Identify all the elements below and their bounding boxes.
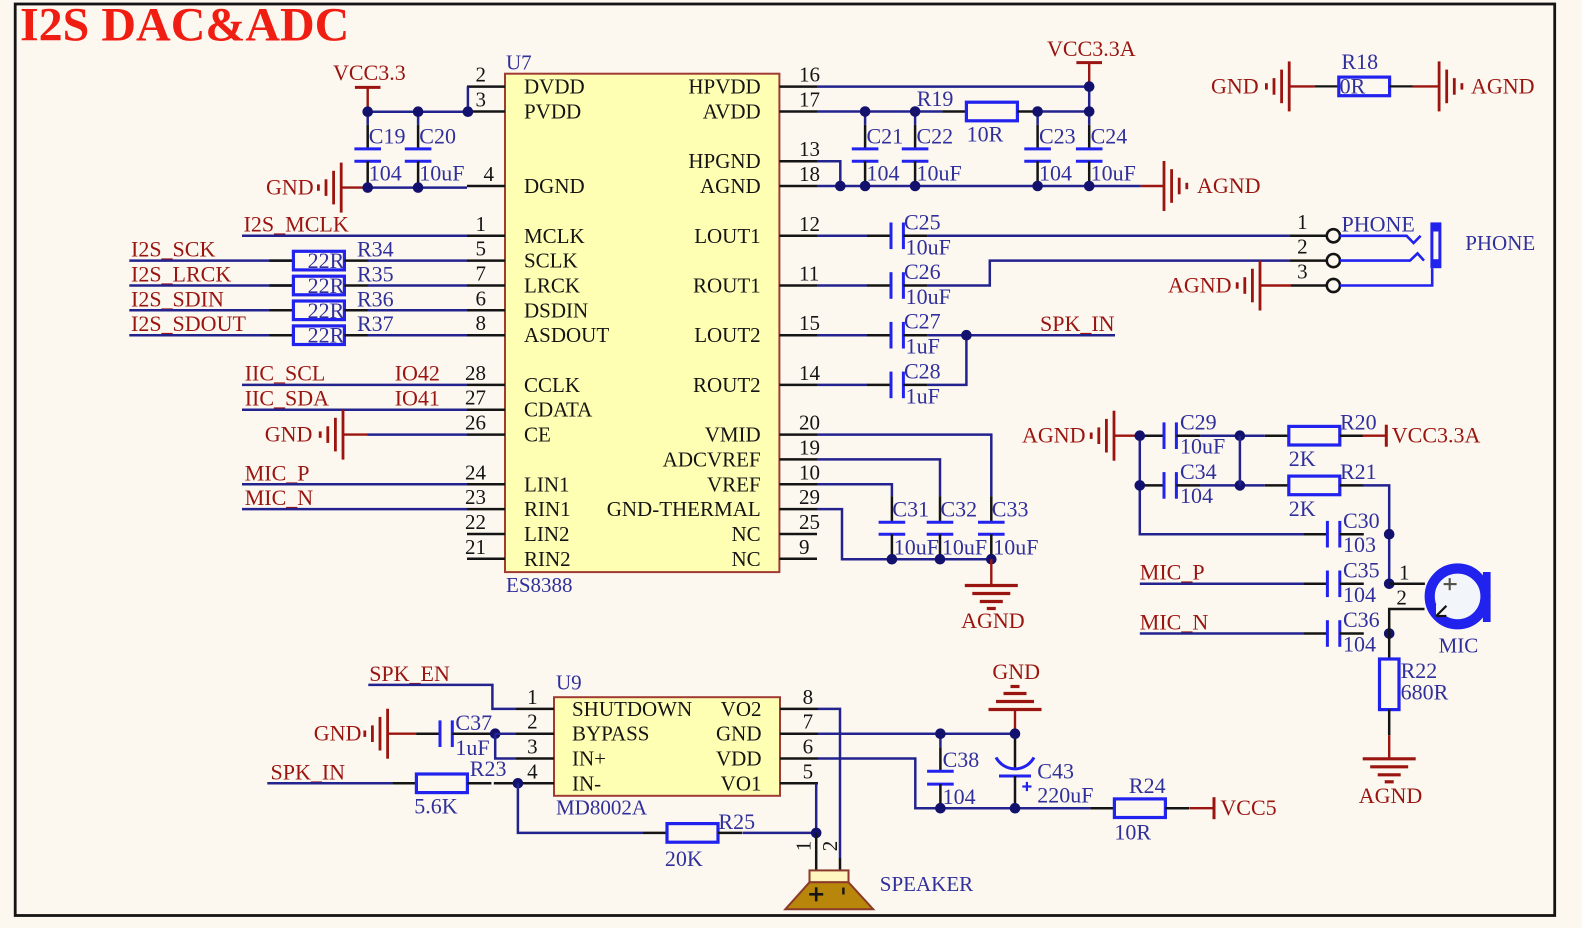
svg-text:VO2: VO2 — [721, 697, 762, 721]
svg-text:MIC: MIC — [1439, 633, 1479, 657]
ground AGND below R22 — [1363, 757, 1416, 760]
ground AGND at pin18 — [1163, 161, 1166, 211]
junction dots U9 rails — [935, 728, 946, 739]
svg-text:22R: 22R — [308, 298, 345, 323]
svg-text:23: 23 — [465, 485, 486, 509]
svg-text:IIC_SDA: IIC_SDA — [245, 386, 329, 411]
svg-text:16: 16 — [799, 63, 820, 87]
wire MIC_N to RIN1 — [242, 508, 467, 511]
junction SPK_IN node — [961, 330, 972, 341]
svg-text:VCC3.3A: VCC3.3A — [1392, 423, 1481, 448]
wire C27 to SPK_IN — [927, 334, 1115, 337]
svg-text:7: 7 — [476, 262, 487, 286]
svg-text:10uF: 10uF — [906, 284, 951, 309]
svg-text:9: 9 — [799, 535, 810, 559]
resistor R34 — [269, 259, 293, 262]
wire BYPASS — [495, 732, 516, 735]
mic notch — [1436, 605, 1447, 616]
svg-text:11: 11 — [799, 262, 819, 286]
svg-text:1: 1 — [527, 685, 538, 709]
svg-text:2: 2 — [527, 710, 538, 734]
wire PVDD rail — [366, 110, 468, 113]
resistor R22 — [1380, 659, 1400, 710]
wire I2S_LRCK left — [129, 284, 293, 287]
wire C28 up to SPK_IN node — [927, 335, 966, 385]
svg-text:GND: GND — [266, 175, 314, 200]
svg-text:C23: C23 — [1039, 124, 1076, 149]
junction dots C31 bus — [887, 554, 898, 565]
wire MIC_N to C36 — [1140, 632, 1304, 635]
C43 plus sign — [1022, 785, 1031, 787]
capacitor C19 — [366, 112, 369, 125]
svg-text:10uF: 10uF — [906, 235, 951, 260]
wire MIC_P to LIN1 — [242, 483, 467, 486]
svg-text:8: 8 — [476, 311, 487, 335]
svg-text:104: 104 — [867, 161, 900, 186]
resistor R18 — [1339, 77, 1390, 96]
svg-text:LIN2: LIN2 — [524, 522, 570, 546]
svg-text:SPK_IN: SPK_IN — [271, 759, 346, 784]
svg-text:2: 2 — [1297, 235, 1308, 259]
svg-text:C22: C22 — [917, 124, 954, 149]
power symbol VCC3.3A top — [1076, 61, 1102, 64]
svg-text:AGND: AGND — [1022, 423, 1086, 448]
svg-text:C25: C25 — [904, 210, 941, 235]
svg-text:10R: 10R — [967, 122, 1004, 147]
svg-text:1: 1 — [1297, 210, 1308, 234]
svg-text:0R: 0R — [1340, 73, 1366, 98]
svg-text:22: 22 — [465, 510, 486, 534]
wire C26 to phone pin2 — [927, 261, 1289, 286]
capacitor C20 — [417, 112, 420, 125]
svg-text:AGND: AGND — [1471, 73, 1535, 98]
capacitor C22 — [914, 112, 917, 125]
wire LOUT2 — [817, 334, 867, 337]
power symbol VCC3.3A right — [1363, 435, 1387, 437]
svg-text:2K: 2K — [1289, 446, 1316, 471]
svg-text:8: 8 — [803, 685, 814, 709]
wire ADCVREF to C32 — [817, 459, 940, 496]
svg-text:5: 5 — [476, 237, 487, 261]
svg-text:10uF: 10uF — [1180, 433, 1225, 458]
svg-text:R21: R21 — [1340, 459, 1377, 484]
svg-text:3: 3 — [476, 88, 487, 112]
capacitor C21 — [864, 112, 867, 125]
svg-text:R24: R24 — [1129, 773, 1166, 798]
svg-text:3: 3 — [527, 735, 538, 759]
junction C36 node — [1384, 628, 1395, 639]
svg-text:ROUT1: ROUT1 — [693, 274, 761, 298]
capacitor C32 — [939, 496, 942, 522]
svg-text:PVDD: PVDD — [524, 100, 581, 124]
phone jack body — [1430, 222, 1441, 268]
svg-text:104: 104 — [369, 161, 402, 186]
svg-text:GND: GND — [1211, 73, 1259, 98]
svg-text:I2S_SCK: I2S_SCK — [131, 237, 215, 262]
svg-text:NC: NC — [732, 547, 761, 571]
ground AGND below C33 — [990, 559, 992, 585]
svg-text:5: 5 — [803, 759, 814, 783]
U7 left pin stubs — [467, 85, 505, 88]
svg-text:C29: C29 — [1180, 409, 1217, 434]
wire I2S_SCK left — [129, 259, 293, 262]
wire IIC_SDA — [242, 408, 467, 411]
wire I2S_MCLK — [242, 235, 467, 238]
wire ROUT1 — [817, 284, 867, 287]
resistor R23 — [392, 782, 416, 785]
svg-text:IIC_SCL: IIC_SCL — [245, 361, 326, 386]
svg-text:SPK_IN: SPK_IN — [1040, 311, 1115, 336]
capacitor C30 — [1303, 533, 1327, 536]
svg-text:CDATA: CDATA — [524, 398, 593, 422]
capacitor C23 — [1036, 112, 1039, 125]
svg-text:20: 20 — [799, 411, 820, 435]
svg-text:C38: C38 — [943, 747, 980, 772]
wire CE — [368, 433, 468, 436]
svg-text:2: 2 — [1396, 586, 1407, 610]
wire C29 to R20 — [1200, 434, 1264, 437]
junction C35 node — [1384, 579, 1395, 590]
svg-text:2: 2 — [818, 841, 842, 852]
ground GND at CE pin — [342, 410, 345, 460]
svg-text:AGND: AGND — [961, 608, 1025, 633]
svg-text:AGND: AGND — [1168, 273, 1232, 298]
svg-text:U7: U7 — [506, 51, 532, 75]
capacitor C29 — [1140, 434, 1164, 437]
svg-text:4: 4 — [527, 759, 538, 783]
svg-text:SCLK: SCLK — [524, 249, 578, 273]
power symbol VCC5 — [1190, 807, 1214, 809]
ground GND top-left — [340, 163, 343, 213]
wire I2S_SDIN left — [129, 309, 293, 312]
phone jack sleeve wire — [1340, 268, 1432, 285]
svg-text:HPVDD: HPVDD — [688, 75, 760, 99]
microphone MIC symbol — [1425, 563, 1491, 629]
svg-text:15: 15 — [799, 311, 820, 335]
speaker SPEAKER symbol — [810, 870, 849, 882]
svg-text:R35: R35 — [357, 262, 394, 287]
svg-text:10uF: 10uF — [419, 161, 464, 186]
svg-text:C21: C21 — [867, 124, 904, 149]
wire to speaker pin1 — [815, 833, 818, 872]
svg-text:1: 1 — [1399, 561, 1410, 585]
svg-text:C20: C20 — [419, 124, 456, 149]
svg-text:22R: 22R — [308, 323, 345, 348]
wire GND to R18 — [1315, 85, 1339, 87]
svg-text:I2S_SDIN: I2S_SDIN — [131, 286, 224, 311]
junction BYPASS node — [490, 728, 501, 739]
svg-text:10uF: 10uF — [917, 161, 962, 186]
wire C36 down to R22 — [1388, 634, 1391, 660]
svg-text:AVDD: AVDD — [703, 100, 761, 124]
svg-text:7: 7 — [803, 710, 814, 734]
capacitor C34 — [1140, 484, 1164, 487]
wire SPK_EN to SHUTDOWN — [368, 685, 516, 709]
svg-text:PHONE: PHONE — [1342, 212, 1415, 237]
svg-text:I2S_SDOUT: I2S_SDOUT — [131, 311, 246, 336]
capacitor C25 — [867, 235, 891, 238]
svg-text:R37: R37 — [357, 311, 394, 336]
svg-text:103: 103 — [1343, 532, 1376, 557]
svg-text:AGND: AGND — [1197, 173, 1261, 198]
svg-text:6: 6 — [803, 735, 814, 759]
svg-text:DVDD: DVDD — [524, 75, 585, 99]
svg-text:I2S DAC&ADC: I2S DAC&ADC — [20, 0, 349, 52]
capacitor C33 — [990, 496, 993, 522]
capacitor C24 — [1088, 112, 1091, 125]
svg-text:1: 1 — [792, 841, 816, 852]
wire C34 to R21 — [1200, 484, 1264, 487]
svg-text:21: 21 — [465, 535, 486, 559]
svg-text:MIC_N: MIC_N — [245, 485, 314, 510]
resistor R20 — [1265, 434, 1289, 437]
wire C25 to phone pin1 — [927, 235, 1289, 238]
svg-text:GND: GND — [992, 659, 1040, 684]
svg-text:10: 10 — [799, 460, 820, 484]
svg-text:1uF: 1uF — [906, 384, 940, 409]
wire R23 junction down to R25 — [518, 783, 643, 833]
svg-text:6: 6 — [476, 286, 487, 310]
wire mic pin1 — [1389, 583, 1425, 586]
svg-text:MIC_P: MIC_P — [1140, 560, 1205, 585]
svg-text:VDD: VDD — [716, 747, 762, 771]
junction dots top-left — [362, 106, 373, 117]
wire HPGND jog — [817, 161, 840, 186]
capacitor C38 — [939, 734, 942, 748]
svg-text:LIN1: LIN1 — [524, 472, 570, 496]
capacitor C36 — [1303, 632, 1327, 635]
wire to IN+ — [495, 734, 516, 759]
svg-text:HPGND: HPGND — [688, 149, 760, 173]
svg-text:10uF: 10uF — [894, 535, 939, 560]
svg-text:C32: C32 — [941, 497, 978, 522]
svg-text:BYPASS: BYPASS — [572, 722, 649, 746]
svg-text:28: 28 — [465, 361, 486, 385]
resistor R24 — [1090, 807, 1114, 810]
svg-text:AGND: AGND — [1359, 783, 1423, 808]
svg-text:PHONE: PHONE — [1465, 231, 1535, 255]
svg-text:IN-: IN- — [572, 771, 601, 795]
resistor R21 — [1265, 484, 1289, 487]
wire VO2 to speaker pin2 — [818, 709, 840, 858]
svg-text:R18: R18 — [1341, 49, 1378, 74]
capacitor C26 — [867, 284, 891, 287]
svg-text:104: 104 — [943, 784, 976, 809]
svg-text:20K: 20K — [665, 846, 703, 871]
wire pin2 jog — [467, 87, 470, 112]
junction IN- node — [513, 778, 524, 789]
svg-text:C37: C37 — [455, 710, 492, 735]
svg-text:MIC_P: MIC_P — [245, 460, 310, 485]
svg-text:R23: R23 — [470, 756, 507, 781]
svg-text:I2S_LRCK: I2S_LRCK — [131, 262, 231, 287]
wire R25 to VO1 node — [742, 832, 816, 835]
wire VMID to C33 — [817, 435, 991, 497]
wire R18 to AGND — [1390, 85, 1413, 87]
wire R19 to VCC column — [1041, 110, 1089, 113]
speaker plus — [809, 893, 823, 896]
svg-text:VCC5: VCC5 — [1220, 795, 1276, 820]
wire I2S_SDIN right — [368, 309, 467, 312]
svg-text:C26: C26 — [904, 259, 941, 284]
resistor R19 — [942, 110, 966, 113]
svg-text:24: 24 — [465, 460, 487, 484]
wire AVDD rail — [817, 110, 942, 113]
wire AGND column — [1139, 436, 1142, 486]
svg-text:1uF: 1uF — [906, 334, 940, 359]
junction dots top-right — [860, 106, 871, 117]
svg-text:104: 104 — [1180, 483, 1213, 508]
svg-text:C24: C24 — [1091, 124, 1128, 149]
svg-text:VCC3.3A: VCC3.3A — [1047, 36, 1136, 61]
wire AGND rail — [817, 185, 1141, 188]
speaker minus — [842, 888, 844, 895]
svg-text:104: 104 — [1343, 582, 1376, 607]
resistor R25 — [643, 832, 667, 835]
svg-text:ADCVREF: ADCVREF — [663, 447, 761, 471]
wire I2S_SDOUT left — [129, 334, 293, 337]
capacitor C43 polarized — [1014, 734, 1017, 770]
svg-text:680R: 680R — [1401, 679, 1449, 704]
svg-text:18: 18 — [799, 162, 820, 186]
svg-text:MCLK: MCLK — [524, 224, 585, 248]
svg-text:GND-THERMAL: GND-THERMAL — [607, 497, 761, 521]
svg-text:GND: GND — [265, 422, 313, 447]
svg-text:C30: C30 — [1343, 508, 1380, 533]
wire IIC_SCL — [242, 384, 467, 387]
svg-text:R20: R20 — [1340, 409, 1377, 434]
svg-text:ES8388: ES8388 — [506, 573, 573, 597]
wire mic pin2 — [1389, 609, 1424, 634]
svg-text:GND: GND — [314, 721, 362, 746]
svg-text:C27: C27 — [904, 309, 941, 334]
svg-text:27: 27 — [465, 386, 486, 410]
wire VO1 down — [815, 783, 818, 833]
capacitor C35 — [1303, 583, 1327, 586]
U7 right pin stubs — [779, 85, 817, 88]
svg-text:RIN1: RIN1 — [524, 497, 571, 521]
svg-text:CCLK: CCLK — [524, 373, 580, 397]
resistor R35 — [269, 284, 293, 287]
phone jack ring contact — [1340, 253, 1424, 260]
svg-text:10uF: 10uF — [993, 535, 1038, 560]
IC U9 MD8002A body — [554, 697, 780, 796]
svg-text:IN+: IN+ — [572, 747, 606, 771]
wire C29 right column — [1239, 436, 1242, 486]
resistor R36 — [269, 309, 293, 312]
svg-text:12: 12 — [799, 212, 820, 236]
svg-text:4: 4 — [484, 162, 495, 186]
svg-text:10uF: 10uF — [942, 535, 987, 560]
svg-text:3: 3 — [1297, 260, 1308, 284]
svg-text:26: 26 — [465, 411, 486, 435]
wire HPVDD rail — [817, 85, 1089, 88]
svg-text:17: 17 — [799, 88, 820, 112]
IC U7 ES8388 body — [505, 74, 779, 572]
phone pin stubs — [1290, 235, 1327, 238]
svg-text:ASDOUT: ASDOUT — [524, 323, 609, 347]
svg-text:VREF: VREF — [707, 472, 761, 496]
wire MIC_P to C35 — [1140, 583, 1304, 586]
svg-text:R34: R34 — [357, 237, 394, 262]
wire LOUT1 — [817, 235, 867, 238]
svg-text:R36: R36 — [357, 286, 394, 311]
power symbol VCC3.3 — [355, 86, 381, 89]
capacitor C37 — [416, 732, 440, 735]
svg-text:2: 2 — [476, 63, 487, 87]
svg-text:220uF: 220uF — [1037, 783, 1093, 808]
wire R21 down column — [1363, 485, 1390, 583]
wire VREF to C31 — [817, 484, 892, 496]
svg-text:SPK_EN: SPK_EN — [369, 661, 450, 686]
svg-text:I2S_MCLK: I2S_MCLK — [244, 212, 349, 237]
ground AGND right — [1438, 61, 1441, 111]
resistor R37 — [269, 334, 293, 337]
svg-text:C33: C33 — [992, 497, 1029, 522]
svg-text:C43: C43 — [1037, 759, 1074, 784]
svg-text:C34: C34 — [1180, 459, 1217, 484]
capacitor C28 — [867, 384, 891, 387]
svg-text:VO1: VO1 — [721, 771, 762, 795]
svg-text:2K: 2K — [1289, 496, 1316, 521]
wire R23 to IN- — [494, 782, 518, 785]
svg-text:25: 25 — [799, 510, 820, 534]
svg-text:VMID: VMID — [705, 423, 761, 447]
svg-text:LOUT2: LOUT2 — [694, 323, 761, 347]
svg-text:29: 29 — [799, 485, 820, 509]
svg-text:MIC_N: MIC_N — [1140, 609, 1209, 634]
svg-text:MD8002A: MD8002A — [556, 796, 648, 820]
svg-text:R19: R19 — [917, 86, 954, 111]
junction VO1 node — [811, 828, 822, 839]
svg-text:SPEAKER: SPEAKER — [880, 872, 973, 896]
junction dots mic network — [1135, 430, 1146, 441]
svg-text:10R: 10R — [1114, 820, 1151, 845]
svg-text:NC: NC — [732, 522, 761, 546]
svg-text:LOUT1: LOUT1 — [694, 224, 761, 248]
svg-text:C36: C36 — [1343, 607, 1380, 632]
wire VDD rail U9 — [818, 759, 1090, 809]
wire GND-THERMAL to bus — [817, 509, 991, 559]
svg-text:104: 104 — [1343, 632, 1376, 657]
svg-text:CE: CE — [524, 423, 551, 447]
svg-text:R25: R25 — [718, 809, 755, 834]
svg-text:VCC3.3: VCC3.3 — [333, 60, 406, 85]
svg-text:IO42: IO42 — [395, 361, 440, 386]
mic plus sign — [1444, 583, 1457, 585]
svg-text:AGND: AGND — [700, 174, 761, 198]
svg-text:RIN2: RIN2 — [524, 547, 571, 571]
svg-text:C19: C19 — [369, 124, 406, 149]
svg-text:DGND: DGND — [524, 174, 585, 198]
svg-text:GND: GND — [716, 722, 762, 746]
wire I2S_LRCK right — [368, 284, 467, 287]
svg-text:19: 19 — [799, 435, 820, 459]
svg-text:DSDIN: DSDIN — [524, 298, 588, 322]
wire VCC vertical — [1088, 87, 1091, 112]
svg-text:IO41: IO41 — [395, 386, 440, 411]
svg-text:14: 14 — [799, 361, 821, 385]
svg-text:ROUT2: ROUT2 — [693, 373, 761, 397]
svg-text:1: 1 — [476, 212, 487, 236]
capacitor C27 — [867, 334, 891, 337]
svg-text:22R: 22R — [308, 273, 345, 298]
wire GND rail U9 — [818, 732, 1015, 735]
wire I2S_SDOUT right — [368, 334, 467, 337]
wire C29C34 column to C30 — [1140, 485, 1304, 534]
wire DGND rail — [368, 186, 467, 189]
wire I2S_SCK right — [368, 259, 467, 262]
